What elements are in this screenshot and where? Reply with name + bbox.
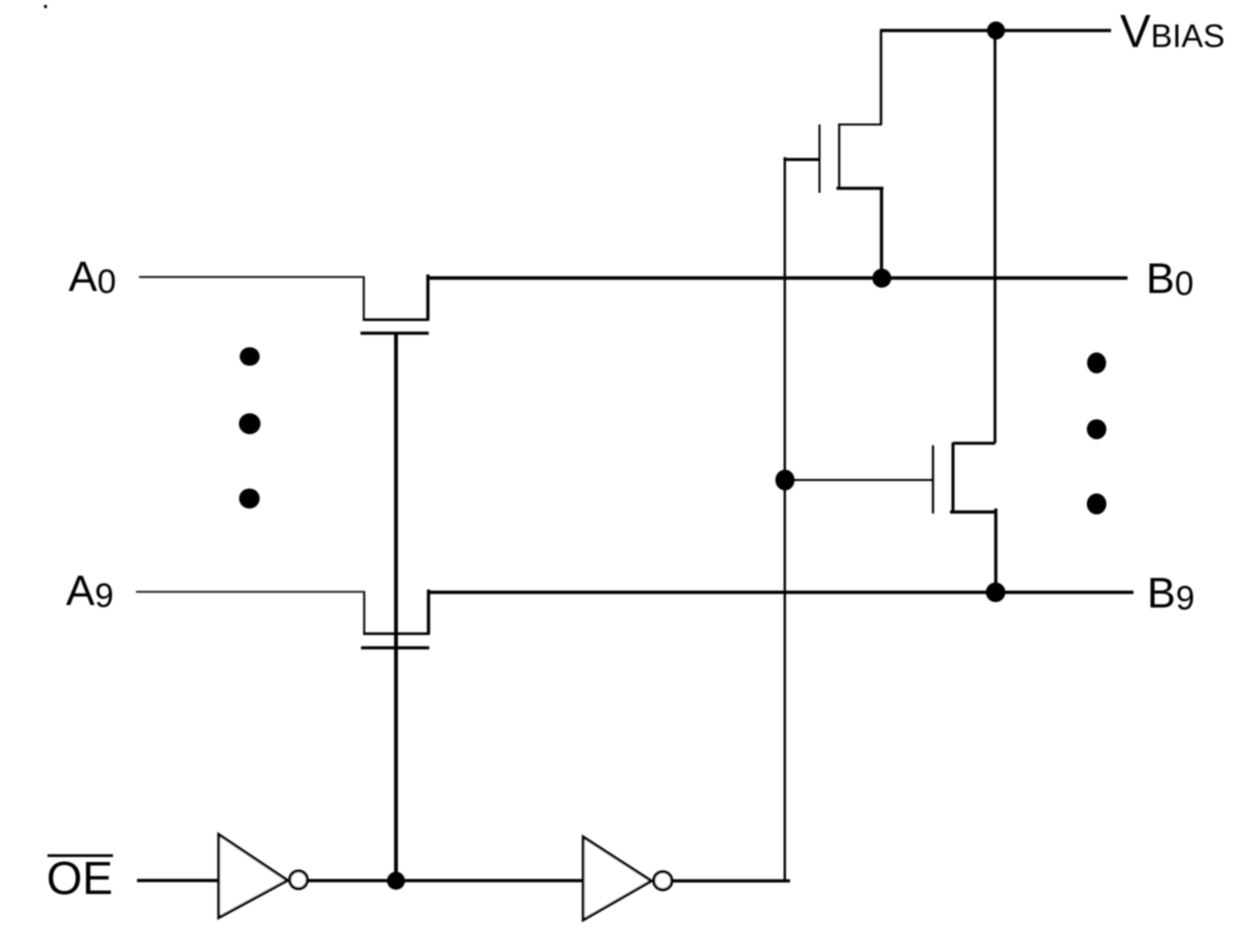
transistor Q3 (pass gate top) bbox=[361, 275, 429, 334]
Q4 gate bar bbox=[361, 646, 429, 649]
wire U1 output bbox=[308, 879, 397, 882]
wire Q2 source lead horizontal bbox=[950, 510, 997, 513]
wire OE input bbox=[137, 879, 219, 882]
transistor Q2 (right middle MOSFET) bbox=[785, 443, 997, 593]
svg-text:OE: OE bbox=[47, 852, 113, 904]
Q3 gate bar bbox=[361, 332, 429, 335]
OE overbar bbox=[48, 854, 114, 857]
inverter U1 bubble bbox=[290, 871, 308, 889]
wire VBIAS horizontal bbox=[880, 29, 1111, 32]
transistor Q1 (bias MOSFET, top) bbox=[784, 31, 884, 279]
Q1 gate bar bbox=[819, 125, 821, 193]
inverter U1 bbox=[219, 835, 288, 918]
Q4 channel bar bbox=[363, 632, 429, 635]
node VBIAS junction dot bbox=[987, 22, 1005, 40]
node OE junction dot bbox=[387, 872, 405, 890]
wire Q1 source lead vertical bbox=[880, 188, 883, 278]
wire inverter output vertical riser bbox=[784, 157, 786, 881]
wire Q2 gate lead bbox=[785, 479, 934, 481]
wire A9 bbox=[136, 591, 365, 593]
Q2 channel bar bbox=[952, 443, 955, 513]
node B0 junction dot bbox=[872, 269, 891, 288]
svg-text:A0: A0 bbox=[69, 253, 117, 301]
wire Q2 source lead vertical bbox=[994, 509, 997, 593]
wire A0 bbox=[139, 276, 365, 278]
wire B0 bbox=[428, 276, 1128, 279]
speck artifact top-left bbox=[44, 5, 47, 8]
wire B9 bbox=[429, 591, 1134, 594]
wire VBIAS vertical down to Q2 drain bbox=[994, 31, 997, 444]
svg-text:B0: B0 bbox=[1146, 255, 1194, 303]
wire Q4 right rise bbox=[427, 590, 430, 635]
dots ellipsis left column bbox=[239, 347, 261, 508]
transistor Q4 (pass gate bottom) bbox=[361, 590, 430, 648]
wire Q4 left drop bbox=[363, 592, 365, 635]
wire Q3 left drop bbox=[363, 277, 365, 321]
wire Q1 drain lead vertical bbox=[880, 31, 883, 125]
node gate junction dot bbox=[775, 470, 794, 491]
Q3 channel bar bbox=[363, 318, 429, 321]
svg-text:B9: B9 bbox=[1147, 570, 1195, 618]
wire U2 output bbox=[673, 879, 790, 882]
inverter U2 bbox=[583, 837, 651, 920]
svg-text:A9: A9 bbox=[66, 567, 114, 615]
inverter U2 bubble bbox=[654, 872, 672, 890]
wire pass-gate vertical (gates of Q3/Q4 down to OE node) bbox=[394, 334, 398, 881]
dots ellipsis right column bbox=[1087, 352, 1107, 514]
wire Q2 drain lead horizontal bbox=[953, 442, 995, 445]
wire Q1 source lead horizontal bbox=[837, 187, 884, 190]
Q2 gate bar bbox=[932, 445, 934, 513]
wire OE node to U2 bbox=[396, 879, 584, 882]
wire Q1 drain lead horizontal bbox=[839, 124, 882, 126]
node B9 junction dot bbox=[986, 583, 1006, 603]
wire Q3 right rise bbox=[426, 275, 429, 321]
wire Q1 gate lead bbox=[784, 158, 820, 161]
Q1 channel bar bbox=[838, 124, 840, 189]
svg-text:VBIAS: VBIAS bbox=[1120, 5, 1225, 57]
